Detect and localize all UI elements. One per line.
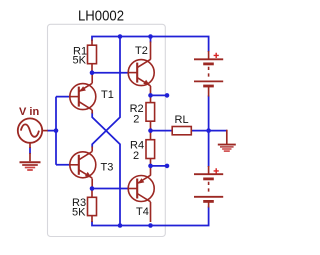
transistor T1 (PNP) xyxy=(70,83,96,110)
wire output node to RL xyxy=(151,130,173,132)
svg-text:V in: V in xyxy=(19,106,39,118)
battery B2 (bottom, V-) xyxy=(194,174,223,201)
node output xyxy=(148,128,153,133)
wire red lead battery2 bottom xyxy=(208,202,210,208)
node bottom rail T4 collector xyxy=(148,223,153,228)
wire T1 collector through crossover down to bottom rail xyxy=(92,113,120,226)
node pin T4 emitter xyxy=(165,164,170,169)
svg-text:T4: T4 xyxy=(136,206,149,218)
wire red lead T4 emitter xyxy=(150,166,152,176)
wire red lead Vin to ground xyxy=(29,143,31,162)
source V in xyxy=(18,118,42,142)
ground at battery midpoint / RL xyxy=(218,145,236,152)
svg-text:5K: 5K xyxy=(73,55,87,67)
node battery midpoint xyxy=(206,128,211,133)
resistor R4 xyxy=(130,140,155,163)
wire from rail dot down to crossover to T3 collector xyxy=(92,37,120,148)
wire R3 top node to T4 base xyxy=(92,188,128,190)
label + battery B1 xyxy=(214,53,219,58)
resistor R2 xyxy=(130,103,155,126)
node bottom rail crossover xyxy=(118,223,123,228)
svg-text:LH0002: LH0002 xyxy=(78,8,124,25)
label + battery B2 xyxy=(214,168,219,173)
wire R1 bottom node to T2 base xyxy=(92,72,128,74)
svg-text:T2: T2 xyxy=(135,45,148,57)
node input xyxy=(54,128,59,133)
wire red lead R2 bottom xyxy=(150,121,152,130)
wire red lead R1 bottom to node xyxy=(91,64,93,73)
wire red lead R2 top xyxy=(150,95,152,102)
wire T4 emitter node stub to pin xyxy=(151,165,168,167)
wire red lead R4 bottom xyxy=(150,159,152,166)
wire red lead T1 collector xyxy=(91,110,93,114)
wire Vin bottom to ground xyxy=(29,147,31,154)
node R3 top xyxy=(90,186,95,191)
wire red lead T2 collector xyxy=(150,42,152,60)
node top rail T2 collector xyxy=(148,34,153,39)
node R1 bottom xyxy=(90,70,95,75)
wire red lead battery1 bottom xyxy=(208,87,210,97)
wire red lead Vin output xyxy=(42,130,48,132)
wire red lead crossover to T3 collector xyxy=(91,147,93,152)
wire battery midpoint rail xyxy=(208,96,210,168)
wire red lead R4 top xyxy=(150,131,152,140)
resistor R1 xyxy=(73,45,97,66)
wire T2 emitter node stub to pin xyxy=(151,94,168,96)
svg-text:T3: T3 xyxy=(101,162,114,174)
wire red lead output ground xyxy=(226,130,228,144)
wire T2 collector to top rail xyxy=(150,37,152,43)
svg-text:5K: 5K xyxy=(72,207,86,219)
node top rail crossover xyxy=(118,34,123,39)
wire bottom rail V- xyxy=(92,207,209,226)
svg-text:2: 2 xyxy=(133,114,139,126)
wire red lead rail to battery1 top xyxy=(208,51,210,59)
node T2 emitter xyxy=(148,93,153,98)
transistor T2 (NPN) xyxy=(128,59,154,86)
wire red lead T1 emitter to node xyxy=(91,73,93,83)
transistor T4 (PNP) xyxy=(128,175,154,202)
wire red lead T3 emitter to node xyxy=(91,178,93,188)
wire red lead T2 emitter xyxy=(150,86,152,95)
wire RL to battery midpoint and ground xyxy=(191,130,227,132)
svg-text:2: 2 xyxy=(133,150,139,162)
svg-text:RL: RL xyxy=(175,114,189,126)
transistor T3 (NPN) xyxy=(70,152,96,179)
wire red lead T4 collector to rail xyxy=(150,202,152,222)
node pin T2 emitter xyxy=(165,93,170,98)
resistor RL xyxy=(172,114,191,135)
wire top rail V+ xyxy=(92,37,209,53)
wire input node: Vin to T1 base and T3 base xyxy=(47,97,70,165)
wire red lead R3 top xyxy=(91,189,93,198)
ground under Vin xyxy=(20,162,41,170)
IC boundary box xyxy=(48,24,166,236)
wire red lead rail to R1 top xyxy=(91,40,93,46)
wire red lead R3 bottom to rail xyxy=(91,216,93,222)
svg-text:T1: T1 xyxy=(101,89,114,101)
wire red lead battery2 top xyxy=(208,166,210,174)
battery B1 (top, V+) xyxy=(194,59,223,86)
node T4 emitter xyxy=(148,164,153,169)
resistor R3 xyxy=(72,197,97,219)
